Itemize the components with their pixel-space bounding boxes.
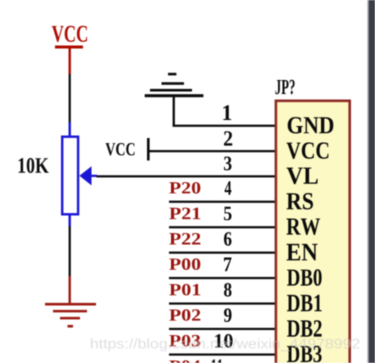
value label 10K [19,158,49,173]
wire pin 6 [169,252,276,254]
pin number 11 (cut off) [212,359,223,363]
pin number 8 [224,283,232,297]
pin number 3 [224,157,232,171]
pin name GND [288,117,334,134]
net label P03 [169,335,200,347]
wire VCC to potentiometer [69,74,71,123]
pin name DB2 [287,320,322,337]
wire pin 10 [169,353,276,355]
net label P22 [169,233,200,245]
pin number 7 [224,258,232,272]
ground (earth top middle) [145,73,204,126]
wire pin 1 (GND net) [173,125,276,127]
wire pin 9 [169,328,276,330]
net label P21 [169,208,200,220]
power symbol VCC [52,26,87,74]
pin name DB0 [287,269,322,286]
pin name EN [287,244,318,261]
pin number 10 [215,334,232,348]
pin number 9 [224,308,232,322]
connector JP? body [276,101,350,363]
pin name VL [287,168,318,185]
pin name VCC [287,142,329,159]
pin name DB1 [287,295,322,312]
wire potentiometer to ground [69,226,71,277]
pin name DB3 [287,346,322,363]
pin name RW [287,219,321,236]
net label VCC (pin 2) [106,138,150,161]
net label P20 [169,182,200,194]
wire pin 5 [169,226,276,228]
right edge dark bar [367,0,375,363]
potentiometer RV 10K [62,122,97,226]
wire pin 4 [169,201,276,203]
pin number 6 [224,232,232,246]
wire pin 2 (VCC net) [148,150,276,152]
wire pin 3 (VL from wiper) [97,175,277,177]
wire pin 7 [169,277,276,279]
watermark [91,338,360,351]
pin number 2 [224,131,232,145]
pin number 5 [224,207,232,221]
pin name RS [287,193,314,210]
net label P04 (cut off) [169,360,200,363]
net label P02 [169,309,200,321]
ground (power ground bottom left) [45,276,96,328]
pin number 4 [225,181,232,195]
pin number 1 [223,105,231,120]
wire pin 8 [169,302,276,304]
net label P00 [169,258,200,270]
net label P01 [169,284,200,296]
connector designator JP? [275,80,294,95]
